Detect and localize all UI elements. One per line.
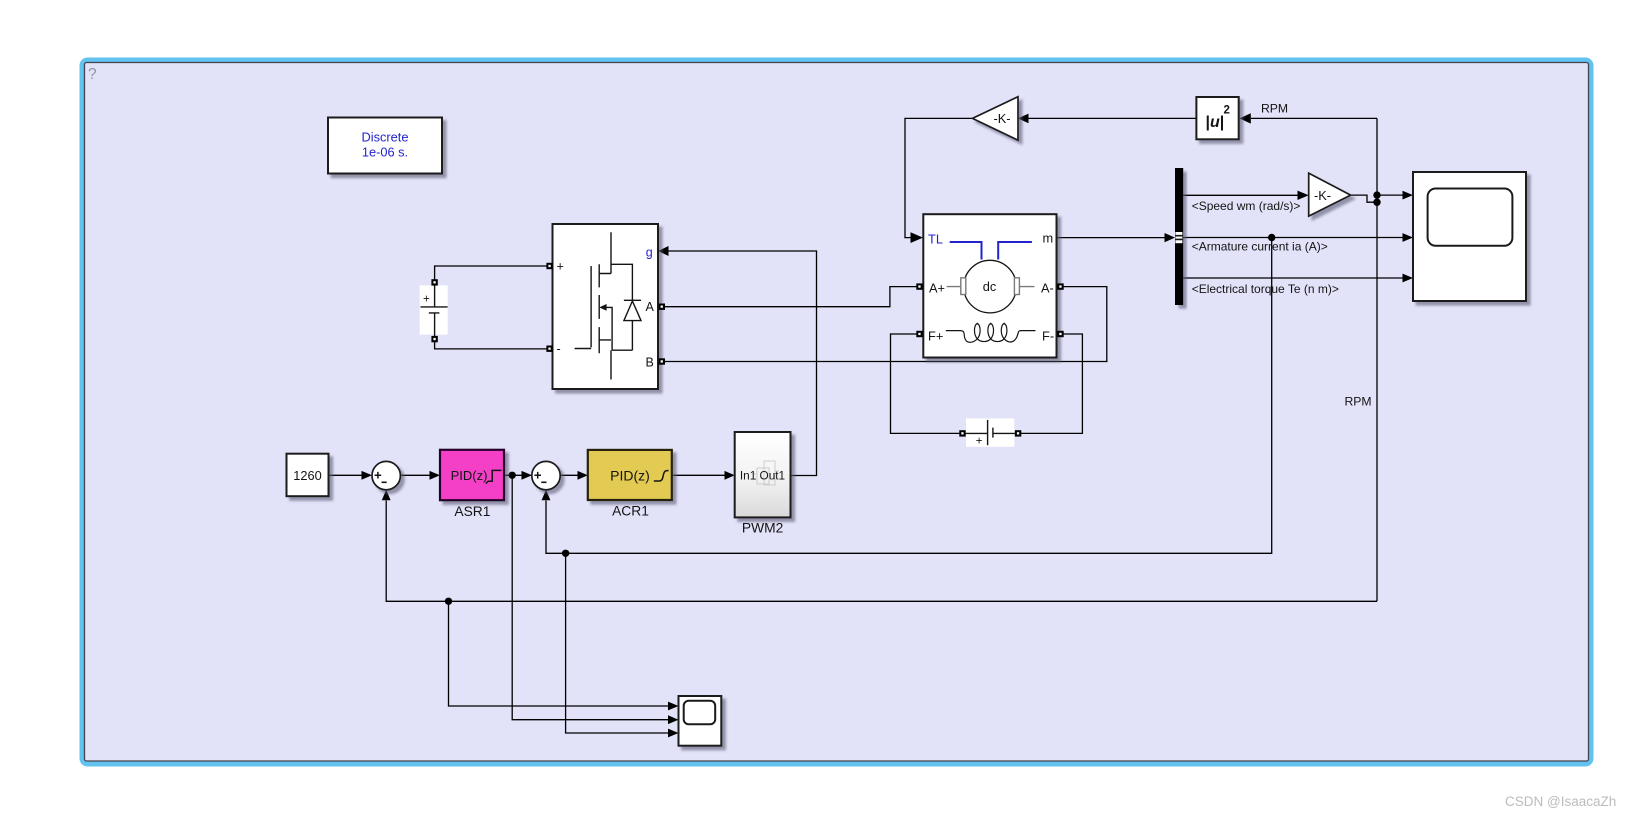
port: dc F+ bbox=[916, 331, 922, 337]
sum S2 bbox=[532, 461, 560, 489]
svg-text:A+: A+ bbox=[929, 280, 945, 295]
port: battery1 + bbox=[431, 279, 437, 285]
svg-text:?: ? bbox=[88, 66, 97, 83]
wire: selector out1 Speed to gain2 bbox=[1183, 194, 1298, 196]
svg-text:2: 2 bbox=[1224, 105, 1230, 117]
PID block ACR1 bbox=[588, 450, 672, 519]
port: battery2 right bbox=[1015, 430, 1021, 436]
sum S1 bbox=[372, 461, 400, 489]
svg-text:1260: 1260 bbox=[293, 468, 321, 483]
scope (3-input) bbox=[1413, 172, 1526, 301]
junction node: RPM trunk bbox=[1373, 199, 1380, 206]
svg-text:<Electrical torque Te (n m)>: <Electrical torque Te (n m)> bbox=[1192, 282, 1339, 296]
converter (Mosfet) block bbox=[553, 224, 659, 389]
port: converter + bbox=[546, 263, 552, 269]
svg-text:PID(z): PID(z) bbox=[610, 468, 650, 484]
arrowhead: into PWM2 bbox=[725, 471, 735, 480]
Discrete sample-time block bbox=[328, 118, 442, 174]
port: converter B bbox=[659, 358, 665, 364]
wire: gain1 out to dc machine TL bbox=[905, 118, 973, 237]
wire: sum2 to ACR1 bbox=[560, 474, 577, 476]
mosfet gate electrode bbox=[590, 266, 592, 347]
wire: converter A to dc machine A+ bbox=[664, 287, 917, 307]
TL blue linkage bbox=[950, 242, 1032, 260]
svg-text:ACR1: ACR1 bbox=[612, 504, 649, 519]
scope2 (small, 3-input) bbox=[679, 696, 722, 746]
port squares bbox=[431, 263, 1063, 437]
mosfet source leads bbox=[599, 307, 632, 379]
diode branch wire bbox=[611, 264, 632, 350]
svg-text:PID(z): PID(z) bbox=[451, 468, 488, 483]
svg-text:RPM: RPM bbox=[1261, 102, 1288, 116]
svg-text:A: A bbox=[646, 300, 655, 314]
svg-text:Discrete: Discrete bbox=[362, 130, 409, 145]
wire: sum1 to ASR1 bbox=[401, 474, 430, 476]
wire: battery1 - to converter - bbox=[435, 341, 547, 349]
svg-text:RPM: RPM bbox=[1345, 395, 1372, 409]
wire: dc machine F+ to field source + bbox=[891, 334, 961, 433]
mosfet drain lead bbox=[599, 232, 611, 273]
port: battery1 - bbox=[431, 336, 437, 342]
junction node: gain2/scope bbox=[1373, 191, 1380, 198]
port: dc A- bbox=[1057, 283, 1063, 289]
svg-text:TL: TL bbox=[928, 232, 943, 247]
wire: dc machine F- to field source - bbox=[1021, 334, 1083, 433]
wire: constant 1260 to sum1 bbox=[329, 474, 362, 476]
brushes bbox=[947, 278, 1035, 295]
wire: selector out2 armature current to scope input2 bbox=[1183, 237, 1403, 239]
wire: speed feedback branch to scope2 input1 bbox=[449, 601, 669, 706]
arrowhead: into converter g (points left) bbox=[658, 246, 668, 256]
diode D bbox=[624, 300, 641, 320]
mosfet - rail bbox=[575, 348, 592, 350]
port: dc A+ bbox=[916, 283, 922, 289]
wire: gain2 out jog to node bbox=[1351, 195, 1377, 202]
arrowhead: into sum1 bottom bbox=[382, 490, 391, 501]
mosfet source arrow bbox=[599, 304, 606, 311]
svg-text:CSDN @IsaacaZh: CSDN @IsaacaZh bbox=[1505, 794, 1616, 809]
arrowhead: into scope input1 bbox=[1403, 191, 1414, 200]
bus selector bar bbox=[1175, 168, 1183, 305]
svg-text:+: + bbox=[423, 294, 430, 306]
gain K1 (points left) bbox=[973, 97, 1019, 141]
wire: armature current feedback to sum2 bbox=[546, 238, 1272, 554]
svg-text:F+: F+ bbox=[928, 328, 943, 343]
wire: PWM2 Out1 to converter g bbox=[669, 251, 817, 476]
wire: node to scope input1 bbox=[1377, 194, 1403, 196]
svg-text:PWM2: PWM2 bbox=[742, 521, 783, 536]
arrowhead: into sum2 bottom bbox=[542, 490, 551, 501]
wire: RPM to squarer input bbox=[1251, 117, 1377, 119]
wire: selector out3 torque to scope input3 bbox=[1183, 277, 1403, 279]
PID block ASR1 bbox=[440, 450, 504, 519]
wire: dc machine m to selector bbox=[1057, 237, 1166, 239]
arrowhead: into gain1 (points left) bbox=[1018, 114, 1029, 124]
port: battery2 left bbox=[959, 430, 965, 436]
wire: current feedback branch to scope2 input3 bbox=[566, 553, 668, 733]
subsystem PWM2 bbox=[735, 432, 791, 536]
junction node: current feedback tap bbox=[562, 550, 569, 557]
DC machine block bbox=[923, 214, 1056, 357]
svg-text:A-: A- bbox=[1041, 280, 1054, 295]
wire: battery1 + to converter + bbox=[435, 266, 547, 280]
svg-text:<Armature current ia (A)>: <Armature current ia (A)> bbox=[1192, 239, 1328, 253]
svg-text:+: + bbox=[557, 260, 564, 274]
arrowhead: into sum2 left bbox=[522, 471, 533, 480]
svg-text:dc: dc bbox=[983, 279, 997, 294]
wire: converter B to dc machine A- bbox=[664, 287, 1107, 362]
arrowhead: into ACR1 bbox=[578, 471, 588, 480]
arrowhead: into ASR1 bbox=[430, 471, 441, 480]
svg-text:ASR1: ASR1 bbox=[454, 504, 490, 519]
svg-text:In1 Out1: In1 Out1 bbox=[740, 469, 785, 483]
svg-text:B: B bbox=[646, 356, 654, 370]
svg-text:m: m bbox=[1043, 231, 1054, 246]
wire: ASR1 output branch to scope2 input2 bbox=[512, 475, 668, 719]
svg-text:<Speed wm (rad/s)>: <Speed wm (rad/s)> bbox=[1192, 199, 1301, 213]
arrowhead: into squarer (points left) bbox=[1240, 113, 1251, 123]
arrowhead: into scope input3 bbox=[1403, 274, 1414, 283]
arrowhead: into scope2 input3 bbox=[668, 729, 679, 738]
arrowhead: into gain2 bbox=[1298, 191, 1309, 200]
field inductor coil bbox=[946, 323, 1036, 342]
svg-text:+: + bbox=[976, 436, 983, 448]
svg-text:-K-: -K- bbox=[1314, 188, 1331, 203]
squarer block |u|^2 bbox=[1196, 97, 1238, 139]
wire: RPM feedback to sum1 bbox=[386, 501, 1377, 602]
svg-text:-: - bbox=[557, 342, 561, 356]
arrowhead: into scope input2 bbox=[1403, 233, 1414, 242]
svg-text:1e-06 s.: 1e-06 s. bbox=[362, 145, 408, 160]
svg-text:|u|: |u| bbox=[1206, 114, 1225, 131]
constant block 1260 bbox=[287, 454, 329, 497]
arrowhead: into dc machine TL bbox=[911, 232, 924, 243]
arrowhead: into sum1 left bbox=[362, 471, 373, 480]
svg-text:g: g bbox=[646, 246, 653, 260]
port: dc F- bbox=[1057, 331, 1063, 337]
wire: RPM feedback vertical trunk bbox=[1376, 118, 1378, 601]
svg-text:-K-: -K- bbox=[993, 111, 1010, 126]
junction node: speed feedback tap bbox=[445, 598, 452, 605]
junction node: armature current tap bbox=[1268, 234, 1275, 241]
DC voltage source E1 bbox=[420, 285, 448, 337]
arrowhead: into scope2 input1 bbox=[668, 702, 679, 711]
rotor circle bbox=[964, 260, 1017, 313]
wire: ACR1 to PWM2 bbox=[672, 474, 725, 476]
wire: ASR1 to sum2 bbox=[504, 474, 522, 476]
port: converter - bbox=[546, 346, 552, 352]
arrowhead: into scope2 input2 bbox=[668, 715, 679, 724]
arrowhead: into selector bbox=[1165, 233, 1176, 242]
wire: squarer out to gain1 bbox=[1029, 117, 1197, 119]
junction node: ASR1 output branch bbox=[509, 472, 516, 479]
gain K2 (points right) bbox=[1309, 173, 1351, 216]
port: converter A bbox=[659, 304, 665, 310]
DC voltage source E2 (field) bbox=[966, 418, 1016, 447]
svg-text:F-: F- bbox=[1042, 328, 1054, 343]
mosfet channel bars bbox=[598, 264, 600, 353]
port center dots bbox=[433, 265, 1061, 435]
